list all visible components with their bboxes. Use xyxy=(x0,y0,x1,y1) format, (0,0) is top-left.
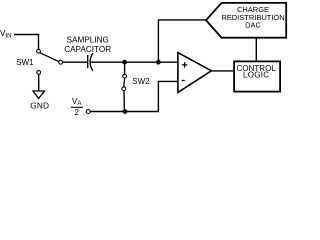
switch SW2 xyxy=(122,62,127,111)
wire node to DAC point xyxy=(158,20,206,62)
wire SW1 to ground xyxy=(38,74,40,91)
dac CHARGE REDISTRIBUTION DAC xyxy=(206,3,286,38)
pin + (noninverting input) xyxy=(182,62,188,67)
node VIN xyxy=(0,29,12,40)
svg-text:2: 2 xyxy=(75,108,80,117)
label SAMPLING CAPACITOR xyxy=(64,35,111,54)
op-amp comparator xyxy=(178,53,212,93)
svg-text:CAPACITOR: CAPACITOR xyxy=(64,45,111,54)
node junction bottom of SW2 xyxy=(123,109,128,114)
switch SW1 xyxy=(37,49,63,74)
svg-text:SW2: SW2 xyxy=(132,77,150,86)
wire DAC to control logic xyxy=(255,38,257,62)
svg-text:DAC: DAC xyxy=(245,20,261,29)
ground xyxy=(30,91,49,111)
svg-text:LOGIC: LOGIC xyxy=(243,71,269,80)
pin - (inverting input) xyxy=(182,80,185,82)
svg-text:SW1: SW1 xyxy=(16,58,34,67)
node VA/2 xyxy=(71,97,90,117)
wire capacitor to comparator + input xyxy=(91,61,178,63)
node junction top of SW2 xyxy=(122,60,127,65)
svg-text:SAMPLING: SAMPLING xyxy=(67,35,109,44)
wire VIN to SW1 xyxy=(14,35,39,49)
wire comparator output to control logic xyxy=(211,70,234,72)
node junction riser to DAC xyxy=(156,60,161,65)
wire SW1 to capacitor xyxy=(63,61,88,63)
capacitor SAMPLING CAPACITOR xyxy=(88,53,93,71)
svg-text:GND: GND xyxy=(30,101,49,111)
box control logic xyxy=(234,61,280,91)
wire VA/2 to comparator - input xyxy=(90,81,178,111)
